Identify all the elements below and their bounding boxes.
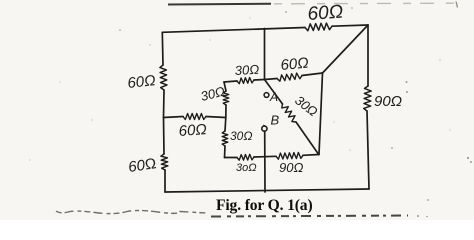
wire: diagonal to inner bottom-right corner — [296, 122, 319, 155]
scan artifact: dark streak top edge — [168, 3, 271, 6]
node B tick mark — [263, 125, 266, 126]
wire: inner bottom edge right of node B line — [264, 155, 276, 157]
scan artifact: wavy dashed line bottom left — [56, 211, 206, 214]
svg-text:A: A — [269, 90, 278, 104]
wire: outer left edge middle segment — [163, 90, 166, 118]
wire: outer top edge (left segment) — [162, 28, 305, 33]
scan artifact: faint specks — [119, 7, 472, 217]
resistor 30Ω (inner top edge) — [237, 78, 254, 84]
svg-text:3oΩ: 3oΩ — [236, 162, 257, 174]
resistor 30Ω (diagonal) — [282, 104, 296, 122]
svg-text:60Ω: 60Ω — [127, 72, 157, 92]
wire: outer left edge bottom segment — [164, 170, 166, 192]
resistor 60Ω (inner top-right edge) — [277, 73, 302, 81]
wire: middle horizontal stub from left rail — [164, 117, 184, 118]
wire: outer left edge lower segment — [163, 118, 166, 155]
resistor 60Ω (middle horizontal) — [183, 114, 206, 120]
wire: outer bottom edge — [165, 189, 369, 192]
wire: outer left edge upper segment — [161, 32, 164, 65]
scan artifact: dark dashes bottom — [211, 216, 408, 217]
wire: outer right edge upper segment — [367, 25, 369, 86]
scan artifact: faint paper speckles — [29, 17, 451, 161]
svg-text:60Ω: 60Ω — [280, 55, 309, 74]
wire: inner top-right edge stub — [302, 73, 323, 76]
wire: inner right edge — [319, 73, 323, 155]
svg-text:Fig. for Q. 1(a): Fig. for Q. 1(a) — [216, 197, 313, 214]
wire: inner left edge — [225, 105, 227, 118]
wire: outer right edge lower segment — [367, 111, 369, 189]
wire: inner bottom edge to node B line — [254, 156, 264, 158]
node A terminal circle — [264, 93, 269, 98]
wire: node B down to bottom rail — [264, 131, 266, 192]
wire: inner bottom edge right stub — [303, 154, 319, 157]
scan artifact: tick top right — [456, 2, 458, 8]
wire: vertical drop from top edge to node A junction — [264, 29, 266, 80]
wire: inner top edge right stub — [254, 79, 265, 82]
resistor 30Ω (inner left edge upper) — [223, 91, 229, 105]
svg-text:B: B — [271, 113, 280, 128]
wire: inner bottom edge left stub — [225, 157, 238, 159]
wire: stub from node A junction to 60Ω — [265, 79, 278, 80]
wire: inner left edge lower stub — [224, 118, 227, 132]
resistor 30Ω (inner left edge lower) — [222, 131, 228, 146]
resistor 90Ω (inner bottom edge) — [276, 153, 303, 160]
resistor 60Ω (top edge) — [305, 23, 332, 31]
wire: diagonal stub from node A junction — [265, 80, 283, 105]
wire: outer top edge (right segment) — [332, 25, 368, 26]
wire: diagonal from top-right corner to inner square corner — [323, 25, 369, 73]
resistor 60Ω (left edge upper) — [160, 65, 167, 90]
svg-text:30Ω: 30Ω — [234, 62, 259, 78]
resistor 90Ω (right edge) — [364, 86, 372, 111]
wire: inner left edge to bottom corner — [224, 146, 227, 158]
wire: inner top edge left stub — [224, 81, 237, 82]
wire: middle horizontal stub to inner square — [206, 117, 226, 118]
resistor 30Ω (inner bottom edge) — [237, 154, 254, 160]
svg-text:90Ω: 90Ω — [279, 160, 303, 175]
resistor 60Ω (left edge lower) — [161, 154, 168, 170]
svg-text:60Ω: 60Ω — [307, 2, 344, 25]
wire: inner left edge top stub — [224, 82, 226, 91]
svg-text:60Ω: 60Ω — [178, 121, 207, 140]
node B terminal circle — [262, 126, 267, 131]
svg-text:90Ω: 90Ω — [374, 93, 402, 110]
svg-text:30Ω: 30Ω — [230, 129, 252, 143]
